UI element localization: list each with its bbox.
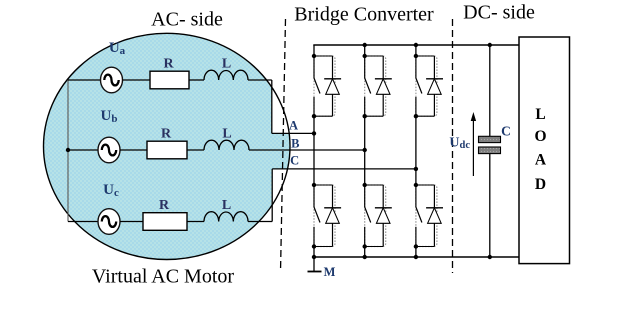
svg-text:Virtual AC Motor: Virtual AC Motor [92, 266, 234, 288]
capacitor C [489, 45, 491, 136]
inductor L (phase a) [204, 70, 248, 80]
svg-text:A: A [289, 119, 298, 133]
svg-text:R: R [161, 127, 172, 142]
wire [187, 221, 204, 223]
wire [120, 221, 143, 223]
ideal switch [415, 56, 417, 78]
wire [189, 79, 204, 81]
svg-text:L: L [222, 198, 231, 213]
separator dashed line AC/Bridge [281, 19, 286, 272]
resistor R (phase c) [143, 213, 187, 231]
wire: DC- bottom rail [313, 256, 520, 258]
ground M [313, 257, 315, 272]
inductor L (phase b) [204, 140, 249, 150]
wire [120, 149, 147, 151]
wire: leg 3 bottom connection [415, 247, 417, 258]
svg-text:R: R [163, 57, 174, 72]
diode [433, 56, 435, 116]
wire: leg 1 midpoint [313, 116, 315, 185]
svg-text:C: C [501, 124, 511, 139]
wire [123, 79, 151, 81]
wire: leg 2 bottom connection [364, 247, 366, 258]
source Ub [68, 149, 98, 151]
ideal switch [364, 56, 366, 78]
separator dashed line Bridge/DC [452, 19, 454, 273]
resistor R (phase b) [147, 141, 187, 159]
svg-text:A: A [535, 152, 547, 169]
wire: leg 1 bottom connection [313, 247, 315, 258]
svg-text:O: O [534, 128, 546, 145]
wire: node C [272, 168, 416, 170]
diode [433, 185, 435, 247]
wire [187, 149, 204, 151]
wire: phase c to node C [248, 221, 272, 223]
svg-text:L: L [222, 127, 231, 142]
ideal switch [364, 185, 366, 207]
switch-diode cell S6 (bottom) [416, 185, 437, 247]
wire: neutral bus [67, 80, 69, 222]
wire: DC+ top rail [313, 44, 519, 46]
svg-text:R: R [159, 198, 170, 213]
svg-text:AC- side: AC- side [151, 9, 223, 31]
wire: phase a to node A [248, 79, 272, 81]
source Uc [68, 221, 98, 223]
Udc arrow [472, 115, 474, 176]
leg 1 top connection [313, 45, 315, 56]
ideal switch [313, 185, 315, 207]
ideal switch [415, 185, 417, 207]
resistor R (phase a) [150, 71, 189, 89]
svg-text:C: C [290, 154, 299, 168]
switch-diode cell S2 (top) [365, 56, 386, 116]
svg-text:DC- side: DC- side [463, 2, 535, 24]
svg-text:D: D [535, 176, 546, 193]
leg 2 top connection [364, 45, 366, 56]
source Ua [68, 79, 101, 81]
svg-text:L: L [535, 106, 545, 123]
wire: node B [249, 149, 365, 151]
svg-text:L: L [222, 57, 231, 72]
load box [519, 37, 570, 264]
svg-text:Bridge Converter: Bridge Converter [294, 4, 434, 26]
wire: leg 3 midpoint [415, 116, 417, 185]
virtual AC motor body (ellipse) [44, 33, 291, 259]
diode [382, 185, 384, 247]
switch-diode cell S1 (top) [314, 56, 335, 116]
diode [332, 185, 334, 247]
svg-text:M: M [324, 265, 336, 279]
wire: leg 2 midpoint [364, 116, 366, 185]
switch-diode cell S4 (bottom) [314, 185, 335, 247]
node: neutral junction [66, 148, 70, 152]
inductor L (phase c) [204, 212, 248, 222]
ideal switch [313, 56, 315, 78]
wire: node A [272, 132, 314, 134]
switch-diode cell S5 (bottom) [365, 185, 386, 247]
leg 3 top connection [415, 45, 417, 56]
svg-text:B: B [291, 137, 299, 151]
diode [382, 56, 384, 116]
diode [332, 56, 334, 116]
switch-diode cell S3 (top) [416, 56, 437, 116]
